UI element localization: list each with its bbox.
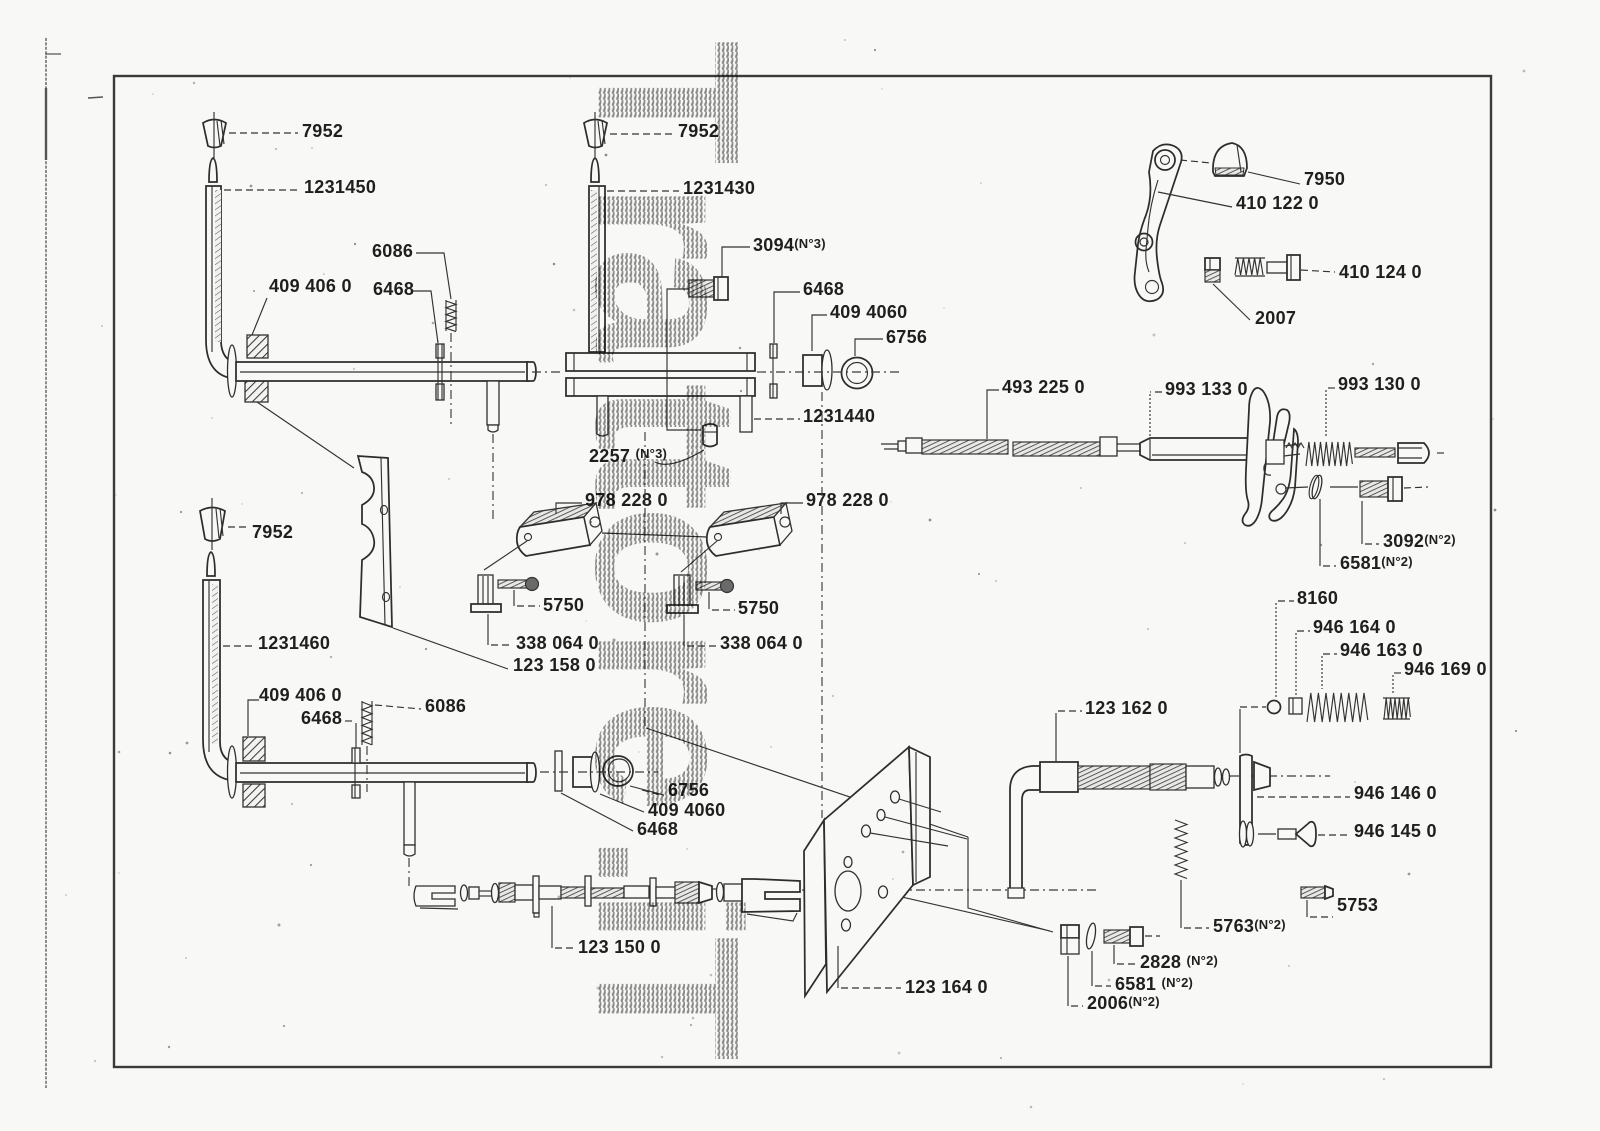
leader 993 130 0	[1326, 387, 1335, 389]
spacer 409 4060 center	[803, 350, 832, 390]
ring 6756 lower	[603, 756, 633, 786]
leader 5750 right	[708, 592, 710, 609]
pin 5750 right	[696, 580, 734, 593]
leader 409 4060 center	[812, 315, 827, 351]
leader 409 4060 lower	[600, 794, 644, 812]
block 978 228 0 left	[517, 503, 602, 556]
bolt 2828	[1104, 927, 1160, 946]
leader 6581 lower	[1091, 951, 1093, 986]
svg-text:409 406 0: 409 406 0	[269, 276, 352, 296]
leader 6468 lower	[345, 720, 356, 722]
svg-text:.: .	[553, 834, 782, 891]
connector vertical right of plate	[968, 837, 1053, 932]
washer 6468 lower shaft	[352, 748, 360, 798]
bolt 3092	[1330, 477, 1428, 501]
bracket plate 123 158 0	[358, 456, 392, 627]
connector line bolt to clip	[667, 289, 701, 430]
connector diagonal ring to rod	[646, 728, 968, 837]
pin 338 064 0 left	[471, 575, 501, 612]
svg-text:T: T	[553, 40, 782, 165]
centerline pin lower	[408, 858, 410, 886]
centerline pin to block	[492, 434, 494, 520]
leader 409 406 0 left	[252, 298, 267, 335]
bolt 3094	[689, 277, 728, 300]
leader 6581 upper	[1319, 499, 1321, 566]
horizontal shaft top-left	[236, 362, 536, 381]
pin below lower shaft	[404, 782, 415, 856]
svg-text:2007: 2007	[1255, 308, 1296, 328]
page left edge line	[45, 38, 103, 1088]
leader 993 133 0	[1150, 391, 1162, 393]
svg-text:a: a	[553, 247, 782, 363]
leader 946 145 0	[1318, 834, 1350, 836]
centerline knob 7950	[1180, 160, 1211, 163]
svg-text:123 164 0: 123 164 0	[905, 977, 988, 997]
leader 123 158 0	[393, 628, 508, 669]
shaft 409 406 0 assembly: hatched bracket upper	[247, 335, 268, 358]
leader 7952 center	[610, 133, 674, 135]
svg-text:6468: 6468	[803, 279, 844, 299]
svg-text:978 228 0: 978 228 0	[806, 490, 889, 510]
lever rod 1231430	[589, 158, 605, 352]
svg-text:5753: 5753	[1337, 895, 1378, 915]
long centerline mid page	[644, 432, 646, 727]
pin below plates right 1231440	[740, 396, 752, 432]
svg-text:T: T	[553, 936, 782, 1061]
leader 7952 top-left	[229, 132, 298, 134]
leader 7950	[1248, 172, 1300, 184]
knob 7952 center	[584, 112, 607, 158]
spring 6086 left	[446, 300, 456, 332]
leader 1231450	[224, 189, 300, 191]
svg-text:1231460: 1231460	[258, 633, 330, 653]
leader 6468 left	[412, 291, 438, 343]
spring 6086 lower	[362, 701, 372, 745]
leader block to pin right	[681, 541, 717, 572]
leader 1231460	[223, 645, 254, 647]
leader 123 164 0	[837, 946, 839, 988]
svg-text:8160: 8160	[1297, 588, 1338, 608]
leader 5750 left	[513, 590, 515, 606]
pin below left shaft	[487, 381, 499, 432]
pin 338 064 0 right	[667, 575, 698, 613]
washer 6468 at ring assembly	[555, 751, 562, 791]
leader 6756 center	[855, 339, 883, 356]
hatched bracket lower lower-left	[243, 784, 265, 807]
leader 946 146 0	[1257, 796, 1350, 798]
border frame	[114, 76, 1491, 1067]
knob 7952 lower-left	[200, 498, 225, 550]
support plates 1231440 upper bar	[566, 353, 755, 371]
svg-text:946 145 0: 946 145 0	[1354, 821, 1437, 841]
washer 6581 upper	[1307, 474, 1324, 499]
leader 123 150 0	[551, 906, 553, 948]
leader 946 169 0	[1394, 672, 1401, 674]
nut 2007	[1205, 258, 1220, 282]
spring 946 163 0	[1307, 693, 1368, 722]
leader block to pin left	[484, 541, 527, 570]
leader 2006	[1067, 956, 1069, 1006]
svg-text:993 130 0: 993 130 0	[1338, 374, 1421, 394]
washer 6468 center	[770, 344, 777, 398]
leader 6086 lower	[375, 705, 421, 709]
support plates 1231440 lower bar	[566, 378, 755, 396]
svg-text:t: t	[553, 383, 782, 451]
leader 2828	[1113, 945, 1115, 964]
centerline rod row	[1230, 775, 1330, 777]
lever 410 122 0	[1135, 144, 1182, 301]
leader 6756 lower	[630, 786, 664, 795]
fork hub block	[1266, 440, 1304, 464]
leader 338 064 0 left	[487, 614, 489, 645]
centerline ring assembly	[540, 771, 658, 773]
svg-text:123 162 0: 123 162 0	[1085, 698, 1168, 718]
svg-text:410 124 0: 410 124 0	[1339, 262, 1422, 282]
leader 5753	[1306, 900, 1308, 917]
svg-text:6468: 6468	[373, 279, 414, 299]
svg-text:6756: 6756	[886, 327, 927, 347]
detent ball 8160	[1268, 701, 1281, 714]
flange washer on left shaft	[228, 345, 237, 397]
block 978 228 0 right	[707, 503, 792, 556]
svg-text:1231450: 1231450	[304, 177, 376, 197]
leader 493 225 0	[987, 390, 999, 439]
leader 946 164 0	[1297, 630, 1310, 632]
svg-text:6468: 6468	[301, 708, 342, 728]
holder plate 946 146 0	[1240, 755, 1271, 848]
horizontal shaft lower-left	[236, 763, 536, 782]
link fork to washer	[1285, 487, 1308, 488]
hatched bracket upper lower-left	[243, 737, 265, 761]
svg-text:o: o	[553, 505, 782, 630]
spring 5763	[1175, 820, 1187, 879]
hatched bracket lower	[245, 378, 268, 402]
centerline through washers	[757, 371, 902, 373]
release fork 993 130 0	[1243, 388, 1299, 526]
svg-text:493 225 0: 493 225 0	[1002, 377, 1085, 397]
svg-text:7950: 7950	[1304, 169, 1345, 189]
svg-text:t: t	[553, 443, 782, 511]
mounting plate 123 164 0	[804, 747, 930, 996]
dashes detent row	[1240, 706, 1266, 708]
centerline below spring 6086	[450, 333, 452, 428]
leader 978 228 0 left	[556, 503, 582, 514]
spring 993 130 0	[1306, 442, 1352, 466]
svg-text:946 164 0: 946 164 0	[1313, 617, 1396, 637]
flange washer on lower shaft	[228, 746, 237, 798]
rod assembly 123 162 0	[1008, 762, 1230, 898]
spring 946 169 0	[1383, 698, 1410, 719]
screw 5753	[1301, 886, 1333, 899]
knob 7950	[1213, 143, 1247, 176]
svg-text:993 133 0: 993 133 0	[1165, 379, 1248, 399]
leader 3094	[722, 247, 750, 277]
svg-text:r: r	[553, 627, 782, 707]
leader 338 064 0 right	[683, 615, 685, 646]
bushing 409 4060 lower	[573, 752, 600, 792]
watermark Trattori vertical text	[553, 40, 782, 1061]
cable 123 150 0	[414, 876, 800, 921]
lever rod 1231460	[203, 552, 244, 781]
svg-text:e: e	[553, 699, 782, 813]
washer 6468 on left shaft	[436, 344, 444, 400]
leader 7952 lower-left	[228, 526, 248, 528]
cable 493 225 0 threaded rod	[881, 437, 1140, 456]
pin below plates left	[597, 396, 608, 436]
leader plate top vertical	[1239, 709, 1241, 753]
svg-text:7952: 7952	[302, 121, 343, 141]
svg-text:409 406 0: 409 406 0	[259, 685, 342, 705]
wing screw 946 145 0	[1258, 822, 1316, 847]
svg-text:1231440: 1231440	[803, 406, 875, 426]
leader 2257	[655, 450, 704, 464]
lever rod 1231450	[206, 158, 244, 379]
ring 6756 center	[842, 358, 873, 389]
svg-text:410 122 0: 410 122 0	[1236, 193, 1319, 213]
svg-text:6086: 6086	[425, 696, 466, 716]
centerline spring lower	[366, 746, 368, 792]
leader 2007	[1213, 284, 1250, 320]
washer 6581 lower	[1085, 923, 1097, 950]
sleeve 993 133 0	[1140, 438, 1262, 460]
leader 5763	[1180, 880, 1182, 928]
centerline cable to plate	[802, 889, 1100, 891]
leader 123 162 0	[1058, 710, 1082, 712]
bolt 410 124 0	[1235, 255, 1300, 280]
threaded end and cap	[1355, 443, 1448, 463]
leader 978 228 0 right	[781, 503, 803, 514]
svg-text:7952: 7952	[252, 522, 293, 542]
hole leader lines plate	[899, 799, 941, 812]
leader 1231430	[607, 190, 679, 192]
leader 410 124 0	[1301, 270, 1335, 272]
svg-text:946 169 0: 946 169 0	[1404, 659, 1487, 679]
knob 7952 top-left	[203, 112, 226, 158]
leader 6468 ring	[561, 793, 633, 831]
leader 3092	[1361, 501, 1363, 544]
centerline between assemblies	[532, 371, 564, 373]
svg-text:6086: 6086	[372, 241, 413, 261]
leader 6086 left	[416, 253, 451, 299]
leader 6468 center	[774, 292, 800, 343]
leader 1231440	[754, 418, 800, 420]
svg-text:946 146 0: 946 146 0	[1354, 783, 1437, 803]
connector diagonal hole to bolts	[889, 894, 1050, 931]
leader 410 122 0	[1158, 192, 1232, 207]
sleeve 946 164 0	[1289, 698, 1302, 714]
nut 2006	[1061, 925, 1079, 954]
pin 5750 left	[498, 578, 539, 591]
leader 409 406 0 lower	[248, 700, 259, 736]
leader bracket to plate	[257, 402, 354, 468]
svg-text:946 163 0: 946 163 0	[1340, 640, 1423, 660]
clip 2257	[703, 424, 717, 447]
link line between blocks	[602, 533, 707, 537]
leader 946 163 0	[1323, 653, 1337, 655]
leader 8160	[1278, 600, 1294, 602]
svg-text:409 4060: 409 4060	[830, 302, 907, 322]
long centerline right of blocks	[821, 392, 823, 818]
